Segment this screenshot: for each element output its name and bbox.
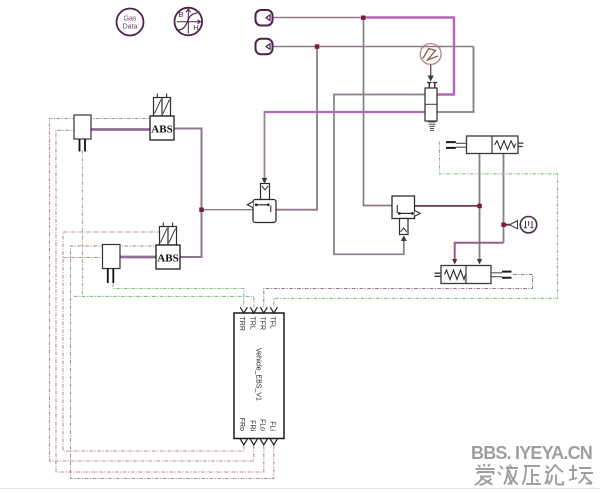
circle gas data	[117, 9, 144, 36]
central brake valve MV pedal arrow	[247, 202, 253, 208]
circle BH hysteresis	[175, 8, 203, 36]
svg-text:Data: Data	[123, 24, 138, 31]
wire right vertical tank2 to valve V1 bottom-right port	[437, 47, 474, 113]
cylinder CY1 (spring right)	[446, 136, 524, 154]
wire junction E to pressure sensor triangle	[504, 224, 510, 226]
wire ABS1 right to junction C vertical	[174, 129, 202, 258]
wire cylinder CY1 bottom-right down, left, into cylinder CY2 left chamber (magenta)	[452, 154, 503, 265]
wire sensor S1 to ABS1 (thick)	[91, 128, 150, 131]
watermark chinese 爱液压论坛	[475, 464, 593, 485]
wire sensor S2 to ABS2 (thick)	[120, 256, 156, 259]
green dashed wire sensor S2 legs to EBS port1	[113, 284, 244, 308]
tank T2	[256, 39, 273, 55]
ABS2 valve symbol	[160, 223, 177, 246]
wire junction A down to relay valve left port	[364, 18, 393, 206]
char 论	[545, 465, 563, 485]
signal source SRC1 (piecewise linear)	[420, 44, 441, 65]
wire thick magenta junction A to valve V1 right port	[363, 18, 454, 95]
ABS1 valve symbol	[154, 94, 171, 117]
valve V1 body	[425, 88, 437, 121]
green dashed wire cylinder CY1 rod loop to EBS port4	[274, 142, 558, 308]
signal arrow into valve V1	[428, 65, 434, 82]
relay valve RV arrow	[415, 211, 421, 217]
char 压	[523, 466, 542, 485]
EBS bottom port arrows	[240, 439, 277, 445]
green dashed wire sensor S1 legs to EBS port2	[74, 150, 254, 307]
ABS2 box	[156, 245, 180, 269]
svg-text:Gas: Gas	[124, 16, 137, 23]
junction C	[199, 208, 204, 213]
svg-text:TRR: TRR	[238, 317, 245, 331]
central brake valve MV body	[253, 200, 276, 223]
char 爱	[475, 464, 495, 485]
EBS controller box	[234, 313, 284, 439]
svg-text:FLo: FLo	[259, 419, 266, 431]
red dashed wire EBS port3 bottom to sensor S1 left port	[56, 130, 264, 472]
red dashed wire EBS port1 bottom to sensor S2 left port	[63, 232, 244, 451]
ABS1 box	[150, 116, 174, 140]
svg-text:TFL: TFL	[269, 317, 276, 330]
wire junction C to central valve left port	[202, 209, 254, 211]
relay valve RV tube	[400, 219, 409, 235]
cylinder CY2 (spring left)	[435, 266, 512, 284]
svg-text:ABS: ABS	[157, 253, 178, 265]
char 坛	[569, 465, 593, 484]
svg-text:Vehicle_EBS_V1: Vehicle_EBS_V1	[255, 348, 262, 401]
sensor S1	[74, 115, 91, 152]
EBS top port arrows	[240, 307, 277, 313]
sensor S2	[103, 245, 121, 284]
red dashed wire EBS port4 bottom to ABS2 symbol and box	[71, 246, 274, 479]
junction E	[501, 223, 506, 228]
EBS port labels top	[238, 317, 276, 331]
svg-text:TFR: TFR	[259, 317, 266, 331]
svg-text:FRo: FRo	[238, 418, 245, 431]
char 液	[498, 465, 518, 485]
relay valve RV body	[392, 196, 415, 219]
wire junction B down to central valve right port	[276, 47, 317, 210]
svg-text:TRL: TRL	[249, 317, 256, 330]
pressure sensor PS triangle	[510, 221, 518, 229]
wire tank1 to junction A	[273, 17, 364, 19]
valve V1 spring	[428, 122, 436, 131]
valve V1 solenoid pins	[427, 83, 437, 89]
junction D	[477, 204, 482, 209]
junction A	[361, 16, 366, 21]
svg-text:H: H	[193, 23, 198, 32]
svg-text:B: B	[178, 10, 183, 19]
watermark BBS.IYEYA.CN	[471, 443, 592, 463]
junction B	[315, 44, 320, 49]
wire valve V1 bottom-left port to central valve top tube	[262, 111, 425, 184]
central brake valve MV tube	[261, 184, 270, 200]
svg-text:FRi: FRi	[249, 420, 256, 431]
wire relay valve right port to junction D	[415, 205, 480, 207]
wire cylinder CY1 bottom-left down into cylinder CY2 right chamber	[477, 154, 482, 265]
tank T1	[256, 10, 273, 26]
wire valve V1 top-left port to relay valve bottom tube	[334, 95, 425, 255]
svg-text:FLi: FLi	[269, 421, 276, 431]
EBS port labels bottom	[238, 418, 276, 432]
svg-text:BBS. IYEYA.CN: BBS. IYEYA.CN	[471, 443, 592, 463]
red dashed wire cylinder CY2 rod loop to EBS port3	[264, 275, 533, 308]
wire tank2 over signal circle	[421, 46, 442, 48]
EBS centre label	[255, 348, 262, 401]
forum page bottom border	[0, 488, 600, 490]
svg-text:ABS: ABS	[151, 124, 172, 136]
red dashed wire EBS port2 bottom to ABS1 left edge	[50, 119, 254, 462]
wire tank2 horizontal to right vertical	[273, 46, 474, 48]
pressure sensor PS circle	[520, 217, 536, 233]
